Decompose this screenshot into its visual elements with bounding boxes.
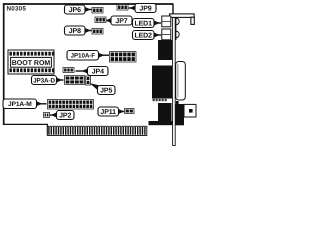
label JP7 xyxy=(107,16,133,25)
label JP5 xyxy=(91,84,116,95)
connector block (upper, behind bracket) xyxy=(158,40,172,60)
LED LED1 (bracket mounted, dome through bracket) xyxy=(162,16,179,40)
svg-text:JP5: JP5 xyxy=(100,87,112,94)
label JP4 xyxy=(76,67,109,76)
label JP6 xyxy=(65,5,92,14)
label JP9 xyxy=(129,4,157,13)
LED LED2 (bracket mounted, dome through bracket) xyxy=(162,29,179,40)
AUI connector body on board xyxy=(152,66,172,99)
jumper JP8 pins xyxy=(92,29,103,35)
header pins row under AUI body xyxy=(153,99,167,101)
svg-text:BOOT ROM: BOOT ROM xyxy=(12,60,51,67)
svg-text:JP1A-M: JP1A-M xyxy=(8,101,32,108)
board outline (PCB top/left/bottom edges) xyxy=(4,4,174,135)
svg-text:JP8: JP8 xyxy=(69,28,81,35)
svg-text:JP9: JP9 xyxy=(139,5,151,12)
svg-text:JP11: JP11 xyxy=(100,109,116,116)
label JP10A-F xyxy=(67,51,109,61)
svg-text:JP6: JP6 xyxy=(69,7,81,14)
svg-text:JP4: JP4 xyxy=(92,68,104,75)
svg-text:LED1: LED1 xyxy=(134,20,152,27)
card edge connector (ISA bus fingers) xyxy=(47,126,146,135)
board bottom-right corner bar xyxy=(149,121,185,125)
label JP8 xyxy=(65,26,92,35)
jumper JP5 pins (vertical 2-pin) xyxy=(86,76,91,85)
jumper block JP3A-D pins xyxy=(65,76,85,85)
jumper JP4 pins xyxy=(3,67,134,120)
jumper JP6 pins xyxy=(92,8,103,14)
BOOT ROM chip (DIP IC) xyxy=(8,50,54,74)
mounting bracket (right side) xyxy=(170,14,195,146)
jumper block JP1A-M pins xyxy=(48,100,94,110)
BNC connector body on board xyxy=(158,103,172,122)
svg-text:LED2: LED2 xyxy=(134,32,152,39)
svg-text:JP3A-D: JP3A-D xyxy=(33,77,55,84)
jumper JP9 pins xyxy=(117,5,128,11)
BNC connector barrel (through bracket) xyxy=(175,101,196,125)
label JP2 xyxy=(50,111,74,120)
svg-text:JP10A-F: JP10A-F xyxy=(71,53,96,60)
jumper JP2 pins xyxy=(44,113,50,118)
jumper block JP10A-F pins xyxy=(110,52,137,63)
svg-text:JP7: JP7 xyxy=(115,18,127,25)
label JP3A-D xyxy=(32,76,64,85)
label JP11 xyxy=(98,107,124,116)
label LED1 xyxy=(133,19,162,28)
svg-text:N0305: N0305 xyxy=(7,6,27,13)
jumper JP7 pins xyxy=(95,17,106,23)
label JP1A-M xyxy=(3,99,47,109)
svg-text:JP2: JP2 xyxy=(59,112,71,119)
DB15 AUI connector (through bracket) xyxy=(176,62,186,101)
label LED2 xyxy=(133,31,162,40)
jumper JP11 pins xyxy=(125,109,135,114)
